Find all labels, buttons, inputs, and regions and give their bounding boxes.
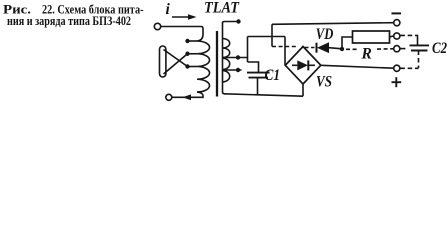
svg-text:TLAT: TLAT: [204, 0, 240, 17]
C2 top lead: [417, 35, 419, 46]
wire to bridge AC input: [248, 36, 286, 38]
resistor R right lead: [390, 36, 394, 37]
secondary tap wire 2: [223, 69, 242, 71]
bridge internal diode: [292, 60, 315, 70]
minus polarity mark: [392, 12, 402, 14]
caption text line 1: [3, 3, 144, 17]
resistor R: [353, 31, 390, 43]
wire top rail down to dashed node: [271, 24, 273, 46]
primary tap stub 1: [188, 40, 197, 42]
transformer core: [216, 31, 218, 97]
dashed stub at pin 3: [400, 48, 406, 50]
junction dot VD/R: [340, 47, 344, 51]
svg-text:C1: C1: [265, 67, 281, 84]
C1 bottom lead: [257, 78, 259, 95]
svg-text:R: R: [361, 46, 372, 63]
secondary tap wire 1: [223, 57, 248, 59]
dashed wire to connector pin 3: [346, 48, 358, 50]
transformer secondary winding: [223, 22, 238, 24]
C2 bottom lead dashed: [418, 51, 420, 69]
wire down to bridge left corner: [284, 37, 286, 66]
connector pin 4: [394, 65, 400, 71]
primary tap dot 3: [185, 64, 189, 68]
dashed wire pin 2 to C2: [400, 34, 417, 36]
bridge rectifier VS diamond: [285, 47, 321, 85]
input terminal bottom-left: [166, 94, 172, 100]
bottom rail wire: [224, 94, 303, 96]
secondary tap dot 2: [236, 68, 240, 72]
wire input top to primary: [161, 27, 203, 42]
dashed link to bridge top: [272, 46, 298, 48]
primary tap stub 3: [188, 66, 197, 68]
connector pin 3: [394, 46, 400, 52]
secondary top polarity dot: [236, 19, 240, 23]
capacitor C2: [410, 45, 430, 50]
wire tap riser: [247, 37, 249, 63]
secondary tap dot 1: [236, 55, 240, 59]
resistor R left lead: [342, 37, 353, 49]
primary tap stub 2: [188, 53, 197, 55]
return arrowhead on bottom wire: [183, 94, 192, 100]
diode VD: [317, 42, 343, 53]
primary tap dot 1: [185, 39, 189, 43]
wire to C1: [248, 62, 259, 73]
svg-text:ния и заряда типа БПЗ-402: ния и заряда типа БПЗ-402: [7, 14, 131, 28]
transformer TLAT primary winding: [197, 41, 210, 92]
input terminal top-left: [154, 23, 160, 29]
capacitor C1: [247, 73, 270, 78]
bridge bottom lead: [302, 84, 304, 96]
svg-text:VD: VD: [316, 26, 334, 43]
current arrow i: [172, 14, 197, 19]
dashed lead to diode VD: [305, 47, 315, 49]
svg-text:i: i: [166, 1, 171, 18]
top rail wire: [272, 23, 394, 25]
primary tap dot 2: [185, 52, 189, 56]
primary bottom lead: [172, 92, 203, 97]
plus polarity mark: [392, 77, 402, 87]
bridge output wire to terminal: [321, 65, 394, 68]
voltage selector jumper bar: [160, 46, 166, 77]
selector link wire A: [164, 50, 188, 67]
caption text line 2: [7, 14, 131, 28]
dashed wire pin 4 to C2: [400, 67, 418, 69]
selector link wire B: [164, 54, 188, 74]
connector pin 1: [394, 20, 400, 26]
svg-text:VS: VS: [316, 74, 332, 91]
svg-text:C2: C2: [432, 40, 447, 57]
connector pin 2: [394, 33, 400, 39]
